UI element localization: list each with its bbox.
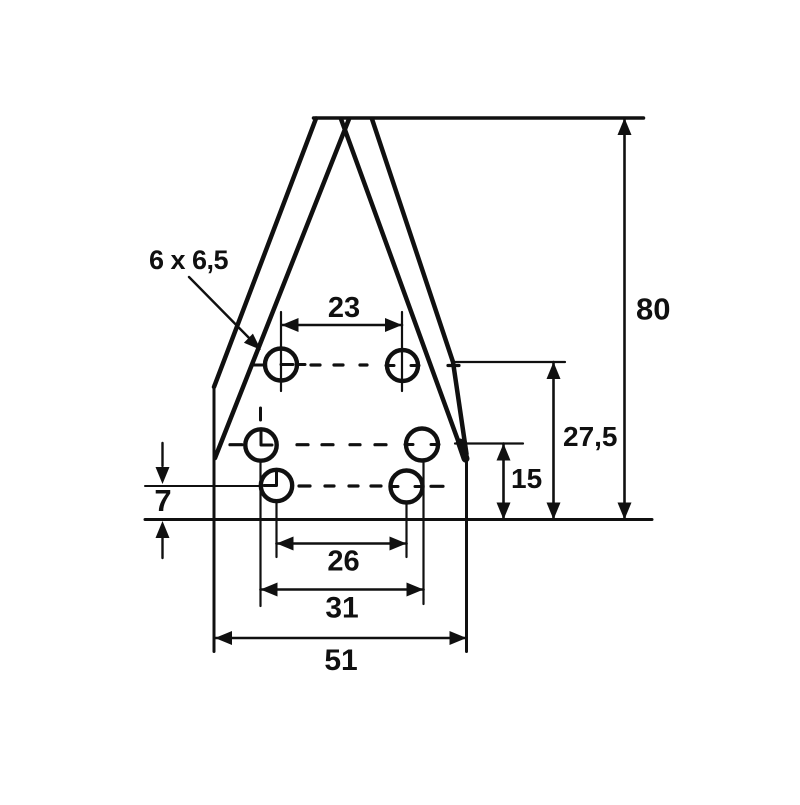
- center tick hole top-left: [281, 363, 293, 366]
- arrowheads 23: [282, 318, 299, 332]
- extension line 31-right below mid-right hole: [422, 461, 424, 605]
- dashed centerline row1: [311, 363, 459, 367]
- dimension line 15: [502, 444, 505, 520]
- right vertical edge: [465, 452, 468, 652]
- vertical dash above hole mid-left: [259, 408, 262, 420]
- right leg inner edge: [341, 119, 464, 457]
- svg-text:7: 7: [154, 483, 171, 518]
- svg-text:6 x 6,5: 6 x 6,5: [149, 245, 229, 275]
- arrowheads 31: [261, 583, 278, 597]
- svg-text:51: 51: [324, 644, 357, 677]
- leader line 6x6,5: [189, 277, 256, 345]
- svg-text:31: 31: [325, 592, 358, 625]
- right leg inner edge end blob: [460, 443, 466, 459]
- arrowheads 15: [497, 444, 511, 461]
- arrowheads 7 (outside): [156, 467, 170, 484]
- arrowheads 27,5: [547, 362, 561, 379]
- svg-text:26: 26: [327, 546, 359, 578]
- dashed centerline row2: [230, 443, 386, 446]
- svg-text:15: 15: [511, 463, 542, 494]
- svg-text:27,5: 27,5: [563, 421, 618, 452]
- rim nubs hole top-left: [253, 363, 305, 367]
- arrowheads 26: [277, 537, 294, 551]
- right leg outer edge: [372, 119, 467, 454]
- left leg inner edge: [215, 119, 349, 458]
- rim nubs hole top-right: [386, 364, 419, 367]
- top edge / 80 extension line: [314, 116, 644, 120]
- rim nubs hole mid-right: [405, 443, 439, 446]
- hole bottom-left: [261, 470, 292, 501]
- svg-text:23: 23: [328, 292, 360, 324]
- dimension line 23: [282, 324, 403, 327]
- dimension line 80: [623, 118, 626, 520]
- extension line 31-left below mid-left hole: [259, 460, 261, 606]
- extension line at mid hole row level for 15: [455, 442, 523, 444]
- long bottom reference line: [145, 518, 652, 521]
- hole mid-right: [406, 429, 438, 461]
- dimension line 27,5: [552, 362, 555, 520]
- left vertical edge: [213, 385, 216, 652]
- hole mid-left: [245, 429, 276, 460]
- extension line 23-left through top-left hole: [280, 312, 282, 391]
- extension line 26-right below bottom-right hole: [405, 502, 407, 557]
- hole top-right: [387, 350, 418, 381]
- hole top-left: [265, 349, 297, 381]
- arrowheads 51: [215, 631, 232, 645]
- svg-text:80: 80: [636, 292, 670, 327]
- dimension 7 arrow tails: [161, 443, 163, 558]
- center ticks hole bottom-left: [264, 472, 277, 486]
- dimension line 31: [261, 588, 424, 591]
- extension line 26-left below bottom-left hole: [275, 501, 277, 557]
- dimension line 51: [215, 637, 467, 640]
- left leg outer edge: [214, 119, 316, 388]
- arrowheads 80: [618, 118, 632, 135]
- dashed centerline row3: [299, 484, 443, 487]
- extension line at top hole row level for 27,5: [453, 361, 565, 363]
- rim nubs hole bottom-right: [390, 485, 423, 488]
- dimension line 26: [277, 542, 407, 545]
- hole bottom-right: [391, 471, 423, 503]
- leader arrowhead: [244, 334, 261, 350]
- extension line 23-right through top-right hole: [401, 312, 403, 391]
- extension line for 7 top: [145, 485, 259, 487]
- center ticks hole mid-left: [261, 432, 272, 445]
